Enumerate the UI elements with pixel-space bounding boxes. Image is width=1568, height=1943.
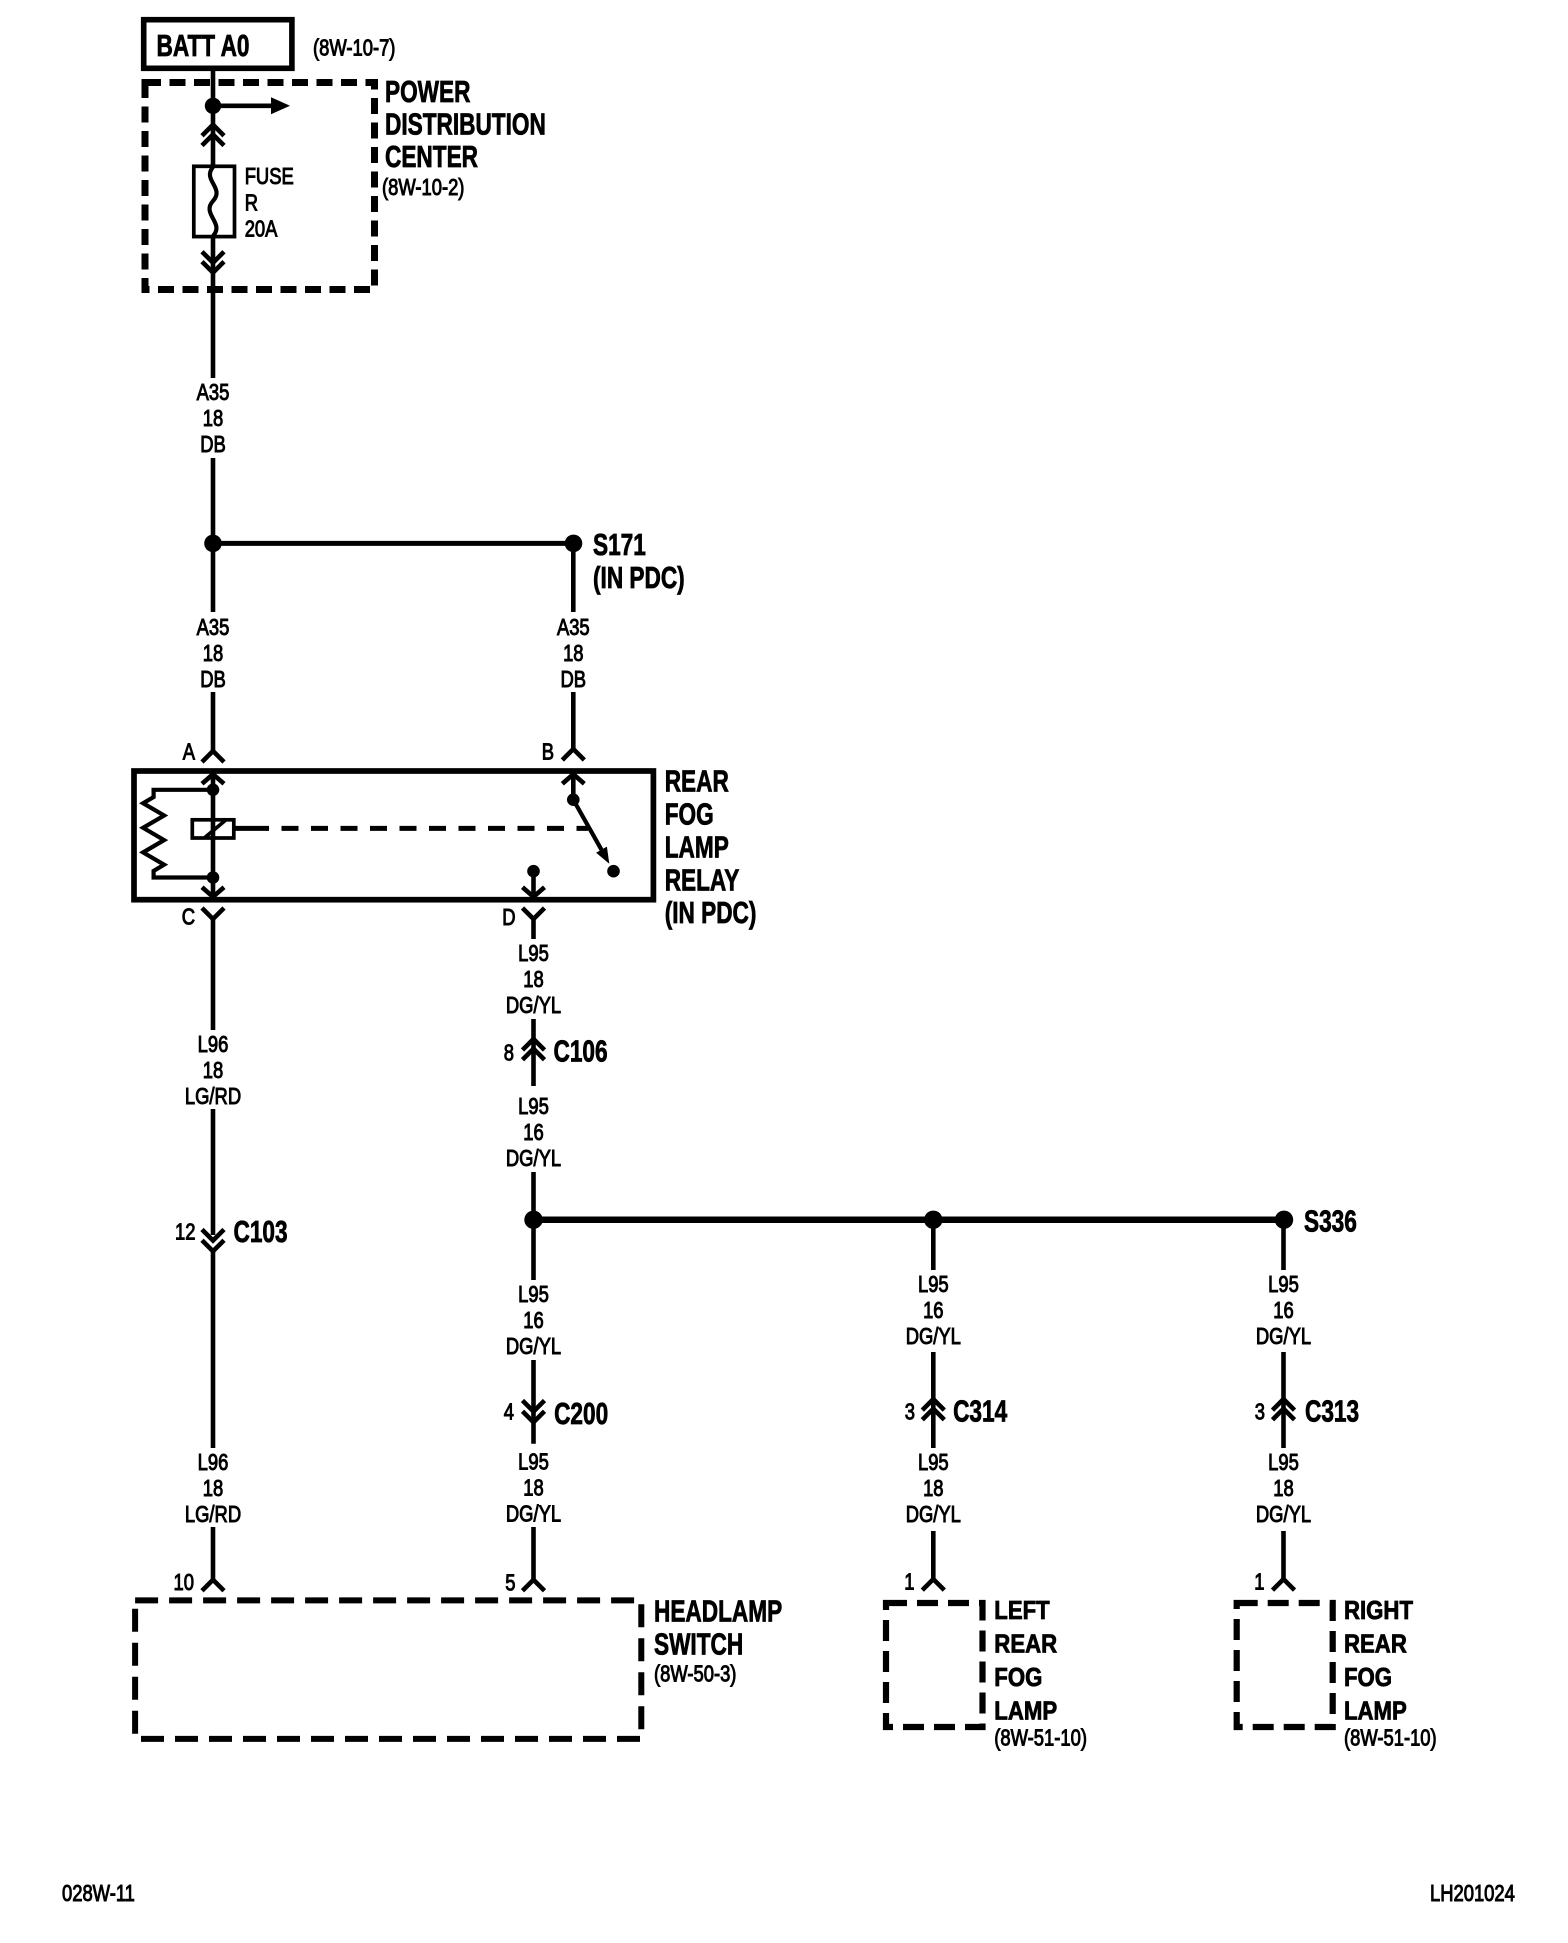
rear fog lamp relay box — [134, 771, 653, 900]
svg-text:C: C — [182, 905, 195, 930]
wire label L96 18 LG/RD — [185, 1032, 241, 1109]
arrow tap to other circuits — [213, 97, 290, 114]
svg-text:RIGHT: RIGHT — [1344, 1597, 1413, 1626]
svg-text:POWER: POWER — [385, 74, 471, 109]
left rear fog lamp pin 1 — [904, 1570, 944, 1595]
svg-text:18: 18 — [1273, 1476, 1293, 1501]
svg-text:DG/YL: DG/YL — [506, 1146, 561, 1171]
svg-text:4: 4 — [504, 1399, 514, 1424]
svg-text:A: A — [183, 740, 195, 765]
svg-text:L95: L95 — [518, 941, 549, 966]
svg-text:L95: L95 — [918, 1450, 949, 1475]
wire label L95 18 DG/YL — [506, 1449, 561, 1526]
svg-text:12: 12 — [175, 1219, 195, 1244]
svg-text:(8W-51-10): (8W-51-10) — [1344, 1726, 1437, 1751]
svg-text:1: 1 — [1254, 1570, 1264, 1595]
svg-text:DB: DB — [561, 667, 587, 692]
svg-text:16: 16 — [1273, 1298, 1293, 1323]
svg-text:L95: L95 — [518, 1094, 549, 1119]
label RIGHT REAR FOG LAMP (8W-51-10) — [1344, 1597, 1437, 1751]
svg-text:FOG: FOG — [994, 1664, 1042, 1693]
reference label (8W-10-7) — [313, 36, 395, 61]
svg-text:C313: C313 — [1305, 1393, 1359, 1428]
svg-text:1: 1 — [904, 1570, 914, 1595]
connector chevrons below fuse (downward) — [202, 252, 224, 273]
splice node S336 dot — [1275, 1211, 1293, 1229]
svg-text:DB: DB — [200, 432, 226, 457]
wire A35 18 DB (fuse to splice S171) — [211, 237, 216, 543]
svg-text:18: 18 — [923, 1476, 943, 1501]
svg-text:BATT A0: BATT A0 — [157, 27, 250, 62]
junction dot left at S171 line — [204, 535, 222, 553]
svg-text:L96: L96 — [198, 1032, 229, 1057]
svg-text:20A: 20A — [245, 217, 278, 242]
svg-text:LH201024: LH201024 — [1430, 1881, 1515, 1906]
svg-text:LAMP: LAMP — [1344, 1697, 1407, 1726]
wire L95 16 DG/YL below C106 — [531, 1092, 536, 1220]
wire A35 18 DB to relay pin B — [571, 543, 576, 749]
wire L95 18 DG/YL to right rear fog lamp — [1281, 1531, 1286, 1580]
svg-text:CENTER: CENTER — [385, 139, 478, 174]
wire A35 18 DB to relay pin A — [211, 543, 216, 751]
relay pin C connector chevrons — [182, 887, 224, 930]
svg-text:DG/YL: DG/YL — [506, 1334, 561, 1359]
relay coil-to-switch dashed actuator line — [234, 826, 588, 831]
svg-text:RELAY: RELAY — [665, 862, 740, 897]
wire label A35 18 DB (left) — [197, 615, 230, 692]
svg-text:L95: L95 — [1268, 1450, 1299, 1475]
drawing number LH201024 — [1430, 1881, 1515, 1906]
svg-text:18: 18 — [203, 1058, 223, 1083]
relay pin B connector chevrons — [542, 740, 585, 784]
svg-text:3: 3 — [905, 1399, 915, 1424]
relay coil top junction dot — [207, 784, 220, 797]
svg-text:LEFT: LEFT — [994, 1597, 1050, 1626]
label S336 — [1304, 1203, 1357, 1238]
wire label L95 18 DG/YL — [506, 941, 561, 1018]
relay coil feed wire from pin A — [211, 774, 216, 790]
fuse R 20A — [194, 166, 235, 236]
wire L95 18 DG/YL to left rear fog lamp — [931, 1531, 936, 1580]
label LEFT REAR FOG LAMP (8W-51-10) — [994, 1597, 1087, 1751]
svg-text:5: 5 — [505, 1571, 515, 1596]
svg-text:FOG: FOG — [665, 796, 714, 831]
svg-text:16: 16 — [923, 1298, 943, 1323]
svg-text:DG/YL: DG/YL — [906, 1324, 961, 1349]
wire label L95 18 DG/YL — [1256, 1450, 1311, 1527]
svg-text:16: 16 — [523, 1308, 543, 1333]
svg-text:(IN PDC): (IN PDC) — [593, 560, 685, 595]
splice node S171 dot — [565, 535, 583, 553]
junction dot middle branch — [924, 1211, 942, 1229]
svg-text:L95: L95 — [1268, 1272, 1299, 1297]
wire label L95 16 DG/YL — [1256, 1272, 1311, 1349]
svg-text:LAMP: LAMP — [665, 829, 729, 864]
svg-text:8: 8 — [504, 1041, 514, 1066]
wire L95 16 DG/YL to C313 — [1281, 1220, 1286, 1448]
left rear fog lamp dashed box — [886, 1603, 983, 1727]
svg-text:(8W-51-10): (8W-51-10) — [994, 1726, 1087, 1751]
relay switch contact dot — [607, 865, 620, 878]
svg-text:D: D — [502, 905, 515, 930]
right rear fog lamp pin 1 — [1254, 1570, 1294, 1595]
svg-text:L96: L96 — [198, 1450, 229, 1475]
svg-text:DISTRIBUTION: DISTRIBUTION — [385, 106, 546, 141]
headlamp switch dashed box — [135, 1600, 641, 1739]
connector C313 pin 3 (chevrons up) — [1255, 1393, 1359, 1428]
svg-text:R: R — [245, 191, 258, 216]
wire L95 18 DG/YL to headlamp switch — [531, 1448, 536, 1580]
wire label L95 16 DG/YL — [506, 1094, 561, 1171]
svg-text:18: 18 — [523, 1475, 543, 1500]
svg-text:18: 18 — [563, 641, 583, 666]
splice S171 horizontal wire — [213, 541, 574, 546]
svg-text:10: 10 — [174, 1570, 194, 1595]
wire label L95 18 DG/YL — [906, 1450, 961, 1527]
headlamp switch pin 5 — [505, 1571, 544, 1596]
power distribution center dashed box — [145, 83, 375, 290]
svg-text:S171: S171 — [593, 527, 646, 562]
junction dot in PDC — [205, 98, 221, 114]
wire BATT A0 to fuse — [211, 68, 216, 167]
connector C200 pin 4 (chevrons down) — [504, 1396, 608, 1431]
connector C314 pin 3 (chevrons up) — [905, 1393, 1007, 1428]
battery feed box BATT A0 — [144, 20, 292, 69]
svg-text:L95: L95 — [918, 1272, 949, 1297]
svg-text:DB: DB — [200, 667, 226, 692]
svg-text:16: 16 — [523, 1120, 543, 1145]
relay resistor (parallel with coil) — [143, 790, 213, 878]
svg-text:C103: C103 — [234, 1214, 288, 1249]
label S171 (IN PDC) — [593, 527, 685, 595]
svg-text:DG/YL: DG/YL — [506, 1501, 561, 1526]
label HEADLAMP SWITCH (8W-50-3) — [654, 1593, 782, 1687]
splice S336 horizontal bus wire — [534, 1217, 1285, 1224]
svg-text:18: 18 — [203, 1476, 223, 1501]
svg-text:3: 3 — [1255, 1399, 1265, 1424]
svg-text:028W-11: 028W-11 — [62, 1881, 135, 1906]
svg-text:A35: A35 — [197, 615, 230, 640]
wire label A35 18 DB — [197, 380, 230, 457]
relay output dot at pin D — [527, 865, 540, 878]
relay switch common wire — [571, 774, 576, 800]
svg-text:FUSE: FUSE — [245, 164, 294, 189]
svg-text:18: 18 — [203, 641, 223, 666]
sheet number 028W-11 — [62, 1881, 135, 1906]
svg-text:(8W-10-2): (8W-10-2) — [382, 175, 464, 200]
connector C106 pin 8 (chevrons up) — [504, 1033, 608, 1068]
svg-text:DG/YL: DG/YL — [906, 1502, 961, 1527]
svg-text:HEADLAMP: HEADLAMP — [654, 1593, 782, 1628]
wire L95 18 DG/YL from relay pin D — [531, 919, 536, 1086]
svg-text:LAMP: LAMP — [994, 1697, 1057, 1726]
svg-text:B: B — [542, 740, 554, 765]
svg-text:LG/RD: LG/RD — [185, 1084, 241, 1109]
svg-text:18: 18 — [523, 967, 543, 992]
label REAR FOG LAMP RELAY (IN PDC) — [665, 763, 757, 930]
label FUSE R 20A — [245, 164, 294, 242]
wire L95 16 DG/YL to C314 — [931, 1220, 936, 1448]
wire L96 18 LG/RD to headlamp switch — [211, 1251, 216, 1580]
svg-text:L95: L95 — [518, 1449, 549, 1474]
relay switch blade with arrowhead — [573, 800, 609, 864]
svg-text:18: 18 — [203, 406, 223, 431]
svg-text:S336: S336 — [1304, 1203, 1357, 1238]
wire label L95 16 DG/YL — [506, 1282, 561, 1359]
svg-text:C106: C106 — [554, 1033, 608, 1068]
relay coil wire — [211, 790, 216, 878]
svg-text:C200: C200 — [554, 1396, 608, 1431]
svg-text:LG/RD: LG/RD — [185, 1502, 241, 1527]
wire L95 16 DG/YL to C200 — [531, 1220, 536, 1444]
svg-text:DG/YL: DG/YL — [1256, 1502, 1311, 1527]
wire L96 18 LG/RD from relay pin C — [211, 934, 216, 1235]
connector chevrons in PDC (upward) — [202, 125, 224, 146]
svg-text:A35: A35 — [197, 380, 230, 405]
headlamp switch pin 10 — [174, 1570, 224, 1595]
relay coil element box — [192, 820, 234, 838]
relay switch pivot dot — [567, 793, 580, 806]
svg-text:L95: L95 — [518, 1282, 549, 1307]
svg-text:DG/YL: DG/YL — [506, 993, 561, 1018]
svg-text:(IN PDC): (IN PDC) — [665, 894, 757, 929]
svg-text:SWITCH: SWITCH — [654, 1626, 743, 1661]
svg-text:DG/YL: DG/YL — [1256, 1324, 1311, 1349]
wire label L95 16 DG/YL — [906, 1272, 961, 1349]
wire label A35 18 DB (right) — [557, 615, 590, 692]
relay coil bottom junction dot — [207, 871, 220, 884]
svg-text:(8W-50-3): (8W-50-3) — [654, 1662, 736, 1687]
connector C103 pin 12 (chevrons down) — [175, 1214, 288, 1252]
junction dot left branch — [524, 1211, 542, 1229]
svg-text:C314: C314 — [953, 1393, 1007, 1428]
svg-text:REAR: REAR — [665, 763, 729, 798]
relay pin D connector chevrons — [502, 871, 544, 930]
svg-text:A35: A35 — [557, 615, 590, 640]
svg-text:REAR: REAR — [994, 1630, 1057, 1659]
wire label L96 18 LG/RD — [185, 1450, 241, 1527]
svg-text:REAR: REAR — [1344, 1630, 1407, 1659]
wire pin C stem — [211, 878, 216, 935]
svg-text:(8W-10-7): (8W-10-7) — [313, 36, 395, 61]
relay pin A connector chevrons — [183, 740, 224, 784]
label POWER DISTRIBUTION CENTER (8W-10-2) — [382, 74, 546, 201]
svg-text:FOG: FOG — [1344, 1664, 1392, 1693]
right rear fog lamp dashed box — [1237, 1603, 1333, 1727]
